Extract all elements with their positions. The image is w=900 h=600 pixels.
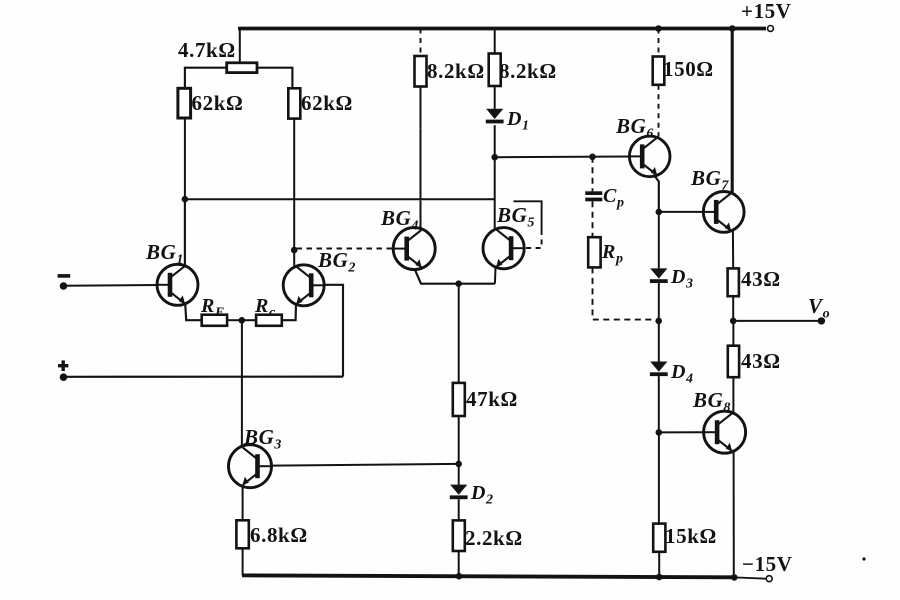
node junction D3/D4 midpoint [655, 318, 662, 325]
terminal +15V [768, 26, 774, 32]
wire BG3 base to bias node [272, 464, 459, 466]
wire dashed to Cp [592, 157, 594, 192]
label 47kohm [466, 387, 518, 411]
node bottom-rail junction 15k [656, 574, 663, 581]
label Rc [254, 295, 276, 321]
wire rail to -15V terminal [735, 577, 766, 578]
svg-text:15kΩ: 15kΩ [665, 524, 717, 548]
wire 6.8k to bottom rail [242, 548, 244, 575]
resistor Rc (horizontal) [256, 315, 282, 326]
resistor 150ohm [653, 57, 665, 85]
label Rp [601, 241, 624, 267]
resistor Rp [588, 237, 600, 267]
node bottom-rail junction BG8 [731, 574, 738, 581]
wire BG1 collector up to node A [184, 199, 186, 266]
svg-text:62kΩ: 62kΩ [301, 91, 353, 115]
svg-text:150Ω: 150Ω [663, 57, 714, 81]
label BG5 [496, 203, 535, 231]
svg-text:43Ω: 43Ω [741, 267, 781, 291]
label 6.8kohm [250, 523, 308, 547]
wire BG2 emitter to Rc [282, 304, 296, 320]
svg-text:4.7kΩ: 4.7kΩ [178, 38, 236, 62]
wire BG3 emitter down to 6.8k [242, 485, 244, 520]
label 8.2kohm left [427, 59, 485, 83]
label 43ohm lower [741, 349, 781, 373]
wire output node to 43ohm lower [732, 321, 734, 346]
capacitor Cp [585, 191, 602, 201]
node junction D4/BG8 base/15k [656, 429, 663, 436]
svg-text:8.2kΩ: 8.2kΩ [499, 59, 557, 83]
resistor 8.2k right [489, 54, 501, 87]
node junction 62k-right / BG4 base [291, 247, 298, 254]
wire BG4 emitter to common emitter wire [415, 269, 495, 284]
wire 4.7k right lead to 62k right [257, 68, 292, 89]
resistor 43ohm upper [728, 268, 739, 296]
label plus sign [58, 360, 68, 371]
node bottom-rail junction 2.2k [456, 573, 463, 580]
wire plus input to BG2 base branch [64, 376, 344, 378]
wire bias node to D2 [458, 464, 460, 485]
wire D3 to mid node [658, 283, 660, 321]
wire BG8 collector to bottom rail [733, 451, 735, 578]
label BG6 [615, 114, 654, 142]
wire D4 to BG8 base node [658, 376, 660, 432]
label D3 [670, 266, 694, 292]
wire node down to D3 [658, 212, 660, 269]
resistor RE (horizontal) [202, 315, 227, 326]
wire node A to BG5 collector line [185, 198, 495, 200]
speck [862, 557, 865, 560]
wire mid node to D4 [658, 321, 660, 362]
label BG1 [145, 240, 184, 268]
resistor 15k [653, 524, 665, 552]
svg-text:2.2kΩ: 2.2kΩ [465, 526, 523, 550]
transistor BG2 [283, 265, 324, 306]
terminal Vo [818, 317, 825, 324]
wire dashed BG4 base feed [297, 248, 394, 250]
label +15V [741, 0, 792, 23]
node junction 47k/D2/BG3 base [455, 461, 462, 468]
svg-text:43Ω: 43Ω [741, 349, 781, 373]
transistor BG5 [483, 228, 524, 269]
svg-text:47kΩ: 47kΩ [466, 387, 518, 411]
wire dashed 150ohm to BG6 collector [658, 85, 660, 137]
node junction Cp branch on BG6 base wire [589, 154, 596, 161]
node B junction D1/BG6 base/BG5 collector [491, 154, 498, 161]
diode D4 [650, 362, 668, 377]
wire dashed Rp down and right to D3/D4 node [593, 267, 657, 321]
diode D1 [486, 109, 504, 124]
label D2 [470, 482, 494, 508]
diode D2 [450, 485, 468, 500]
wire BG5 emitter down [494, 268, 497, 284]
wire 47k to bias node [458, 416, 460, 464]
wire BG7 emitter to 43ohm [732, 231, 734, 269]
label 62kohm right [301, 91, 353, 115]
label BG3 [243, 425, 282, 453]
wire -15V bottom supply rail [242, 575, 735, 577]
wire dashed rail to 150ohm [658, 29, 660, 57]
resistor 47k [453, 383, 465, 416]
node junction BG6 emitter / BG7 base / D3 [656, 209, 663, 216]
label 43ohm upper [741, 267, 781, 291]
wire BG5 base-collector bracket [514, 201, 542, 230]
wire 62k left down to node A [184, 118, 186, 264]
node output junction [730, 318, 737, 325]
label BG7 [690, 166, 729, 194]
wire 8.2k right to D1 [494, 86, 496, 109]
wire dashed bracket to BG5 base [525, 230, 542, 248]
wire BG6 emitter down [654, 175, 659, 212]
wire node down to 15k [658, 432, 660, 523]
wire rail to 8.2k right [494, 29, 496, 54]
wire dashed rail to 8.2k left [420, 29, 422, 57]
label BG4 [380, 206, 419, 234]
label 15kohm [665, 524, 717, 548]
transistor BG1 [157, 264, 198, 305]
svg-text:+15V: +15V [741, 0, 792, 23]
wire dashed Cp to Rp [592, 201, 594, 237]
resistor 62k left [178, 88, 191, 118]
label Cp [603, 185, 625, 211]
wire 4.7k left lead to 62k left [185, 68, 227, 89]
node A junction 62k/BG1 collector [182, 196, 189, 203]
wire node B down to BG5 collector [494, 157, 496, 229]
transistor BG3 [229, 445, 272, 488]
node junction RE/Rc tail [239, 317, 246, 324]
label minus sign [58, 274, 71, 278]
wire 62k right down to BG2 collector [293, 119, 295, 267]
wire 15k to bottom rail [658, 552, 660, 577]
wire emitters node down to 47k [458, 284, 460, 383]
label BG2 [317, 248, 356, 276]
wire RE right lead [227, 319, 242, 321]
svg-text:−15V: −15V [742, 552, 793, 576]
resistor 2.2k [453, 520, 465, 551]
svg-text:8.2kΩ: 8.2kΩ [427, 59, 485, 83]
terminal minus input [60, 282, 68, 290]
wire rail tap down to 4.7k pot [239, 29, 241, 63]
wire 43ohm lower to BG8 emitter [732, 377, 734, 414]
terminal plus input [60, 373, 68, 381]
label 8.2kohm right [499, 59, 557, 83]
wire +15V top supply rail [238, 27, 766, 31]
label 2.2kohm [465, 526, 523, 550]
label D4 [670, 361, 694, 387]
wire Rc left lead [242, 319, 256, 321]
label RE [200, 295, 225, 321]
resistor 8.2k left [415, 56, 427, 87]
label -15V [742, 552, 793, 576]
svg-text:6.8kΩ: 6.8kΩ [250, 523, 308, 547]
label 62kohm left [192, 91, 244, 115]
label D1 [506, 108, 530, 134]
label 150ohm [663, 57, 714, 81]
wire node to BG8 base [659, 431, 704, 433]
wire node to BG7 base [659, 211, 704, 213]
transistor BG4 [393, 228, 435, 270]
wire BG1 emitter to RE [185, 304, 202, 321]
wire 8.2k left to BG4 collector [420, 87, 422, 229]
wire D1 to node B [494, 125, 496, 157]
resistor 4.7k (horizontal) [227, 63, 257, 73]
wire 43ohm to output node [732, 296, 734, 321]
node top-rail junction at 150ohm drop [655, 25, 662, 32]
wire D2 to 2.2k [458, 499, 460, 520]
svg-text:62kΩ: 62kΩ [192, 91, 244, 115]
diode D3 [650, 268, 668, 283]
wire 2.2k to bottom rail [458, 551, 460, 576]
wire BG2 base right and down to plus wire [324, 285, 343, 377]
node junction diff emitters [455, 280, 462, 287]
label 4.7kohm [178, 38, 236, 62]
wire tail node down to BG3 collector [241, 320, 243, 448]
node top-rail junction at BG7 collector drop [729, 25, 736, 32]
resistor 62k right [288, 88, 300, 118]
resistor 6.8k [236, 520, 248, 548]
wire node B to BG6 base [495, 156, 630, 159]
terminal -15V [766, 576, 772, 582]
transistor BG8 [704, 411, 746, 453]
wire rail down to BG7 collector [731, 29, 734, 194]
resistor 43ohm lower [728, 346, 739, 378]
wire output node to Vo terminal [733, 320, 819, 322]
transistor BG7 [703, 192, 744, 233]
label Vo [808, 294, 830, 322]
transistor BG6 [629, 136, 670, 177]
label BG8 [692, 388, 731, 416]
wire minus input to BG1 base [64, 284, 158, 287]
